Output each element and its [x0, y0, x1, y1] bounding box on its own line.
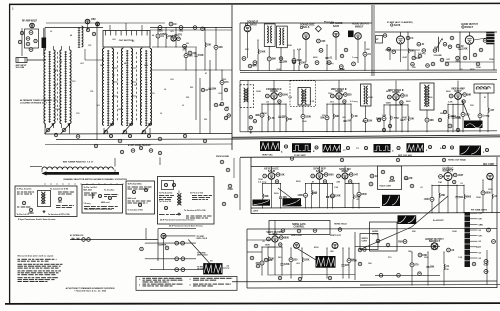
svg-text:C21: C21 [90, 91, 93, 93]
svg-text:IF Input Transformer Used In S: IF Input Transformer Used In Some Versio… [18, 218, 56, 221]
svg-text:150K: 150K [476, 197, 481, 199]
svg-text:120K: 120K [488, 189, 493, 191]
svg-text:L9: L9 [60, 61, 62, 63]
svg-text:.001: .001 [179, 31, 184, 33]
svg-text:.0047: .0047 [424, 198, 431, 201]
svg-text:270: 270 [225, 82, 230, 84]
svg-text:1.5 meg: 1.5 meg [84, 203, 91, 205]
svg-text:.005: .005 [321, 41, 326, 43]
svg-text:DEF OSC 6K6: DEF OSC 6K6 [398, 155, 413, 157]
svg-text:47: 47 [140, 104, 142, 107]
svg-text:OSC: OSC [91, 19, 96, 21]
svg-text:1500: 1500 [118, 109, 122, 111]
svg-text:SEE TUNER PAGE NO. 7 & 17: SEE TUNER PAGE NO. 7 & 17 [63, 161, 94, 164]
svg-text:1 meg: 1 meg [392, 118, 399, 120]
svg-text:39K: 39K [189, 55, 194, 57]
svg-text:39K: 39K [272, 59, 277, 61]
svg-text:68: 68 [70, 35, 72, 37]
svg-text:120K: 120K [304, 260, 310, 262]
svg-text:100K: 100K [404, 179, 409, 181]
svg-text:150K: 150K [386, 103, 392, 105]
svg-text:6AU6: 6AU6 [250, 22, 257, 26]
svg-text:1500: 1500 [144, 65, 148, 67]
svg-text:R7: R7 [132, 41, 134, 43]
svg-text:270: 270 [415, 265, 420, 267]
svg-text:18K: 18K [441, 195, 446, 197]
svg-text:CONV: CONV [160, 34, 167, 36]
svg-text:HOLD CONT: HOLD CONT [380, 186, 392, 188]
svg-text:39K: 39K [434, 47, 438, 49]
svg-text:6800: 6800 [466, 196, 472, 198]
svg-text:18K: 18K [320, 118, 325, 120]
svg-text:VERT: VERT [389, 181, 396, 183]
svg-text:120K: 120K [297, 195, 303, 197]
svg-text:150K: 150K [256, 91, 261, 93]
svg-text:To Pin 6 of V2: To Pin 6 of V2 [17, 214, 29, 216]
svg-text:10K: 10K [410, 119, 415, 121]
svg-text:6AU6: 6AU6 [394, 24, 401, 27]
svg-text:FROM SOUND: FROM SOUND [216, 156, 230, 158]
svg-text:10K: 10K [268, 260, 273, 262]
svg-text:18K: 18K [362, 121, 366, 123]
svg-text:120K: 120K [462, 48, 468, 50]
svg-text:33K: 33K [245, 49, 249, 51]
svg-text:560: 560 [459, 197, 464, 199]
svg-text:Phase Inv: Phase Inv [324, 22, 335, 24]
svg-text:10K: 10K [192, 53, 197, 55]
svg-text:39K: 39K [264, 196, 269, 198]
svg-text:.001: .001 [96, 105, 100, 107]
svg-text:C21: C21 [88, 45, 91, 47]
svg-text:VERT OUT: VERT OUT [330, 235, 342, 237]
svg-text:6W6GT: 6W6GT [355, 25, 364, 28]
svg-text:1.5K: 1.5K [382, 115, 387, 117]
svg-text:18K: 18K [408, 251, 412, 253]
svg-text:1.5K: 1.5K [334, 187, 339, 189]
svg-text:© Howard W. Sams & Co., Inc. 1: © Howard W. Sams & Co., Inc. 1954 [74, 289, 107, 292]
svg-text:G2: G2 [479, 241, 481, 243]
svg-text:C12: C12 [76, 113, 79, 115]
svg-text:.0047: .0047 [402, 56, 408, 59]
svg-text:A PHOTOFACT STANDARD SCHEMA: A PHOTOFACT STANDARD SCHEMATIC NOTATION [66, 287, 115, 290]
svg-text:150K: 150K [489, 59, 494, 61]
svg-text:DAMPER: DAMPER [158, 244, 167, 247]
svg-text:100K: 100K [260, 51, 266, 53]
svg-text:10K: 10K [207, 45, 212, 47]
svg-text:39K: 39K [430, 267, 435, 269]
svg-text:1.5K: 1.5K [353, 116, 358, 118]
svg-text:VERT OSC: VERT OSC [262, 155, 273, 157]
svg-text:220: 220 [186, 97, 189, 99]
svg-text:300 OHM: 300 OHM [16, 67, 25, 69]
svg-text:18K: 18K [430, 120, 435, 122]
svg-text:68: 68 [124, 63, 126, 65]
svg-text:PIX TUBE 21EP4: PIX TUBE 21EP4 [471, 209, 488, 212]
svg-text:DEFL COILS: DEFL COILS [197, 238, 208, 240]
svg-text:MDL 4021: MDL 4021 [84, 188, 93, 191]
svg-text:To Junction of R27 & C86: To Junction of R27 & C86 [48, 213, 69, 216]
svg-text:39K: 39K [255, 115, 260, 117]
svg-text:.001: .001 [218, 93, 222, 95]
svg-text:270: 270 [183, 49, 188, 51]
svg-text:470K: 470K [340, 68, 345, 71]
svg-text:470K: 470K [444, 268, 449, 271]
svg-text:.047: .047 [347, 119, 352, 122]
svg-text:4th IF Transformer Used In Som: 4th IF Transformer Used In Some Versions [169, 225, 203, 228]
svg-text:1500: 1500 [56, 109, 60, 111]
svg-text:LOCATED ON PAGES 2 & 3: LOCATED ON PAGES 2 & 3 [20, 101, 47, 104]
svg-text:2.2 meg: 2.2 meg [326, 63, 334, 65]
svg-text:1 meg: 1 meg [352, 57, 359, 59]
svg-text:.001: .001 [170, 31, 174, 33]
svg-text:39K: 39K [335, 116, 340, 118]
svg-text:100K: 100K [368, 97, 373, 99]
svg-text:To Pin 8 of C88: To Pin 8 of C88 [128, 184, 141, 186]
svg-text:6AL5: 6AL5 [303, 25, 310, 29]
svg-text:.047: .047 [490, 109, 495, 112]
svg-text:2.2 meg: 2.2 meg [418, 53, 426, 55]
svg-text:To Junction: To Junction [104, 188, 114, 191]
svg-text:To Junction of R21: To Junction of R21 [128, 209, 143, 212]
svg-text:5600: 5600 [328, 174, 334, 176]
svg-text:CONT: CONT [362, 241, 368, 243]
svg-text:220: 220 [204, 119, 207, 121]
svg-text:4.7K: 4.7K [310, 100, 315, 103]
svg-text:To Junction L2 & R6: To Junction L2 & R6 [50, 188, 68, 191]
svg-text:TO YOKE: TO YOKE [452, 118, 462, 120]
svg-text:6.3V: 6.3V [484, 265, 489, 267]
svg-text:1.5K: 1.5K [448, 102, 453, 104]
svg-text:220: 220 [226, 107, 229, 109]
svg-text:L2: L2 [182, 105, 184, 107]
svg-text:To Pins 4 and 12: To Pins 4 and 12 [17, 188, 32, 191]
svg-text:1000: 1000 [301, 62, 307, 64]
svg-text:39K: 39K [288, 119, 293, 121]
svg-text:39K: 39K [410, 51, 415, 53]
svg-text:.001: .001 [170, 79, 174, 81]
svg-text:39K: 39K [440, 113, 444, 115]
svg-text:2.2 meg: 2.2 meg [350, 101, 358, 103]
svg-text:18K: 18K [330, 251, 334, 253]
svg-text:100K: 100K [452, 231, 457, 233]
svg-text:120K: 120K [284, 264, 290, 266]
svg-text:To Pin 4 and 12: To Pin 4 and 12 [159, 192, 172, 195]
svg-text:120K: 120K [476, 67, 481, 69]
svg-text:G2: G2 [479, 252, 481, 254]
svg-text:G2: G2 [479, 247, 481, 249]
svg-text:10K: 10K [219, 47, 224, 49]
svg-text:HORIZ HOLD: HORIZ HOLD [334, 224, 347, 226]
svg-text:10K: 10K [368, 263, 372, 265]
svg-text:Measured data taken with no si: Measured data taken with no signal: [18, 255, 55, 258]
svg-text:RF AMP 6BQ7: RF AMP 6BQ7 [22, 20, 38, 23]
svg-text:GRID: GRID [479, 224, 484, 226]
svg-text:CHANNEL SELECTOR SWITCH SHOWN: CHANNEL SELECTOR SWITCH SHOWN IN CHANNEL… [63, 178, 127, 181]
svg-text:150K: 150K [287, 45, 292, 47]
svg-text:2.2 meg: 2.2 meg [258, 182, 267, 184]
svg-text:150K: 150K [198, 55, 204, 57]
svg-text:VERT OSC: VERT OSC [291, 235, 303, 237]
svg-text:10K: 10K [328, 93, 332, 95]
svg-text:47: 47 [205, 72, 207, 75]
svg-text:AC INTERLOCK: AC INTERLOCK [70, 234, 84, 237]
svg-text:1.5K: 1.5K [458, 257, 463, 259]
svg-text:To Pin 6 of V2: To Pin 6 of V2 [159, 201, 171, 203]
svg-text:NOISE GATE: NOISE GATE [292, 223, 306, 226]
svg-text:6V6GT: 6V6GT [465, 25, 474, 29]
svg-text:G2: G2 [479, 258, 481, 260]
svg-text:DEF CONT: DEF CONT [483, 164, 495, 166]
svg-text:68: 68 [152, 35, 154, 37]
svg-text:2200: 2200 [28, 213, 34, 215]
svg-text:10K: 10K [412, 67, 416, 69]
svg-text:B+ BOOST: B+ BOOST [433, 220, 444, 222]
svg-text:10K: 10K [368, 120, 373, 122]
svg-text:4.7K: 4.7K [297, 48, 302, 51]
svg-text:220: 220 [190, 87, 193, 89]
svg-text:6800 mmf: 6800 mmf [101, 202, 110, 204]
svg-text:470K: 470K [262, 112, 267, 115]
svg-text:CONTROL: CONTROL [293, 227, 305, 229]
svg-text:HORIZ OUT 6BQ6: HORIZ OUT 6BQ6 [448, 160, 467, 162]
svg-text:5600: 5600 [362, 194, 368, 196]
svg-text:220: 220 [186, 43, 189, 45]
svg-text:.0047: .0047 [276, 68, 282, 71]
svg-text:To Pin 3 of V12: To Pin 3 of V12 [190, 193, 203, 195]
svg-text:L9: L9 [164, 89, 166, 91]
svg-text:6800: 6800 [284, 237, 290, 239]
svg-text:100K: 100K [312, 193, 317, 195]
svg-text:470K: 470K [227, 188, 233, 191]
svg-text:100K: 100K [265, 245, 271, 247]
svg-text:33K: 33K [322, 115, 326, 117]
svg-text:6800 mmf: 6800 mmf [128, 198, 137, 200]
svg-text:VOLUME: VOLUME [434, 55, 443, 57]
svg-text:4th IF Transformer Used In Som: 4th IF Transformer Used In Some Versions [160, 219, 195, 222]
svg-text:6BQ6GT: 6BQ6GT [429, 239, 440, 243]
svg-text:10K: 10K [438, 182, 442, 184]
svg-text:120K: 120K [335, 196, 341, 198]
svg-text:120K: 120K [306, 116, 312, 118]
svg-text:.0047: .0047 [402, 116, 408, 119]
svg-text:1.5K: 1.5K [288, 97, 293, 99]
svg-text:68: 68 [54, 71, 56, 73]
svg-text:39K: 39K [283, 61, 288, 63]
svg-text:33K: 33K [470, 105, 474, 107]
svg-text:.001: .001 [112, 39, 116, 41]
svg-text:.047: .047 [354, 173, 359, 176]
svg-text:39K: 39K [467, 94, 472, 96]
svg-text:4.7K: 4.7K [270, 117, 275, 120]
svg-text:G2: G2 [479, 230, 481, 232]
svg-text:47K: 47K [408, 177, 413, 180]
svg-text:1 meg: 1 meg [483, 116, 490, 118]
svg-text:220: 220 [294, 260, 299, 262]
svg-text:.001: .001 [80, 63, 84, 65]
svg-text:-220V: -220V [253, 211, 259, 213]
svg-text:To Junction of R27 & C86: To Junction of R27 & C86 [184, 209, 205, 212]
svg-text:C12: C12 [72, 81, 75, 83]
svg-text:6AV6: 6AV6 [333, 25, 340, 28]
svg-text:1500: 1500 [222, 79, 226, 81]
svg-text:SYNC 6SN7: SYNC 6SN7 [294, 155, 307, 157]
svg-text:L2: L2 [160, 113, 162, 115]
svg-text:39K: 39K [412, 231, 416, 233]
svg-text:220: 220 [348, 94, 353, 96]
svg-text:R90: R90 [398, 241, 403, 243]
svg-text:10K: 10K [280, 174, 285, 176]
svg-text:6800: 6800 [486, 193, 492, 195]
svg-text:1000: 1000 [283, 94, 289, 96]
svg-text:270: 270 [178, 35, 183, 37]
svg-text:.0047: .0047 [458, 174, 465, 177]
svg-text:150K: 150K [258, 179, 263, 181]
svg-text:L2: L2 [50, 31, 52, 33]
svg-text:18K: 18K [366, 49, 370, 51]
svg-text:39K: 39K [212, 88, 217, 90]
